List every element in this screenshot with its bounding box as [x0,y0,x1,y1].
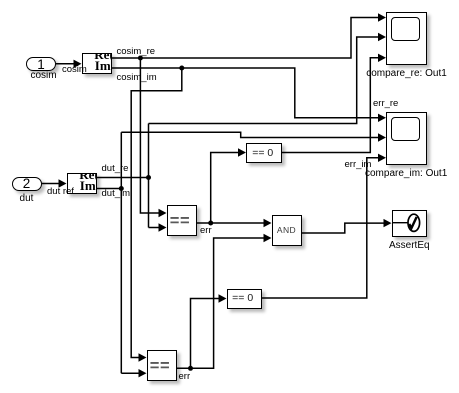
inport 1 label cosim [31,71,57,81]
node junction err bottom [188,366,193,371]
node junction dut_re [146,175,151,180]
scope compare_re label [366,69,447,79]
wire dut_im up branch to Scope2 in2 [121,132,386,141]
wire dut_re: ReIm B out1 to junction [97,177,149,179]
wire err_im: eqz2 out to Scope2 in3 [262,154,387,298]
wire cosim_im: ReIm A out2 to Scope2 in1 [112,68,387,122]
block Complex to Real-Imag A [82,53,112,74]
inport 2 label dut [12,194,42,204]
relational operator == top [167,205,198,236]
node junction cosim_re [138,56,143,61]
signal label cosim (into ReIm A) [62,65,87,75]
wire inport2 to ReIm B [42,179,67,187]
wire dut_im vertical trunk [120,132,122,373]
wire inport1 to ReIm A [56,60,82,68]
compare to zero block bottom == 0 [227,289,262,310]
wire dut_im: ReIm B out2 to junction [97,188,122,190]
block Complex to Real-Imag B [67,173,97,195]
signal label err top [200,226,212,236]
scope compare_im [386,112,427,165]
wire AND out to AssertEq [302,219,392,233]
wire cosim_im branch down to relop2 in1 [131,68,182,362]
wire err top branch up to eqz1 [211,148,246,223]
signal label cosim_im [117,73,157,83]
signal label err bottom [179,372,191,382]
block AssertEq [392,210,427,238]
relational operator == bottom [147,350,178,381]
inport 1 cosim [26,57,56,71]
signal label err_im [345,160,372,170]
signal label cosim_re [117,47,156,57]
node junction cosim_im [179,66,184,71]
wire err bottom: relop2 out to AND in2 [177,234,272,368]
wire cosim_re branch down to relop1 in1 [140,58,166,217]
wire dut_re vertical trunk [148,124,150,228]
logical operator AND [272,215,302,246]
wire dut_re down branch to relop1 in2 [149,223,167,231]
scope compare_im label [365,169,447,179]
signal label dut_im [102,189,131,199]
scope compare_re [386,12,427,65]
wire cosim_re: ReIm A out1 to Scope1 in1 [112,13,387,58]
wire err top: relop1 out to AND in1 [197,219,272,227]
signal label err_re [373,99,398,109]
signal label dut ref (into ReIm B) [47,187,74,197]
node junction err top [208,221,213,226]
node junction dut_im [119,186,124,191]
wire err bottom branch up to eqz2 [191,294,227,368]
wire dut_im down branch to relop2 in2 [121,369,146,377]
signal label dut_re [102,164,129,174]
wire err_re: eqz1 out to Scope1 in3 [282,54,386,153]
inport 2 dut [12,177,42,191]
compare to zero block top == 0 [246,143,282,163]
wire dut_re up branch to Scope1 in2 [149,33,387,124]
block AssertEq label [389,241,429,251]
